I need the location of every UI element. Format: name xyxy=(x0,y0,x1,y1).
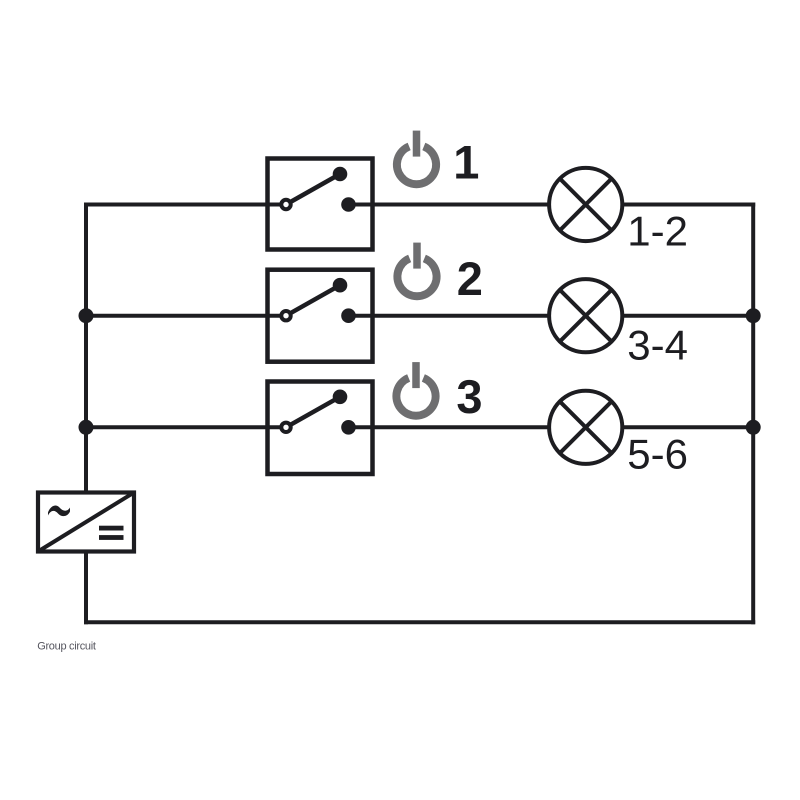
wire bottom return xyxy=(84,620,755,624)
label 1 xyxy=(453,136,479,189)
svg-text:Group circuit: Group circuit xyxy=(37,641,96,653)
svg-text:1: 1 xyxy=(453,136,479,189)
switch S1 xyxy=(268,159,373,250)
lamp label 5-6 xyxy=(627,430,688,477)
lamp E2 xyxy=(549,279,622,352)
power button icon 3 xyxy=(396,362,435,416)
lamp E3 xyxy=(549,391,622,464)
wire row2 middle segment xyxy=(349,314,549,318)
svg-text:3-4: 3-4 xyxy=(627,322,688,369)
wire row3 right segment xyxy=(624,425,754,429)
switch S3 xyxy=(268,382,373,475)
wire row2 left segment xyxy=(86,314,286,318)
svg-text:2: 2 xyxy=(457,252,483,305)
wire row3 left segment xyxy=(86,425,286,429)
svg-text:3: 3 xyxy=(456,370,482,423)
power button icon 2 xyxy=(397,243,436,297)
wire left bus upper segment xyxy=(84,203,88,493)
label 2 xyxy=(457,252,483,305)
lamp label 1-2 xyxy=(627,208,688,255)
caption Group circuit xyxy=(37,641,96,653)
label 3 xyxy=(456,370,482,423)
junction left bus row2 xyxy=(79,308,94,323)
wire row1 middle segment xyxy=(349,203,549,207)
wire left bus lower segment xyxy=(84,551,88,624)
junction left bus row3 xyxy=(79,420,94,435)
wire row2 right segment xyxy=(624,314,754,318)
svg-text:1-2: 1-2 xyxy=(627,208,688,255)
junction right bus row2 xyxy=(746,308,761,323)
lamp E1 xyxy=(549,168,622,241)
AC/DC converter U1 xyxy=(38,493,134,552)
switch S2 xyxy=(268,270,373,362)
wire row1 right segment xyxy=(624,203,756,207)
junction right bus row3 xyxy=(746,420,761,435)
wire row1 left segment xyxy=(84,203,286,207)
power button icon 1 xyxy=(397,131,436,185)
lamp label 3-4 xyxy=(627,322,688,369)
wire right bus xyxy=(751,203,755,625)
svg-text:5-6: 5-6 xyxy=(627,430,688,477)
wire row3 middle segment xyxy=(349,425,549,429)
